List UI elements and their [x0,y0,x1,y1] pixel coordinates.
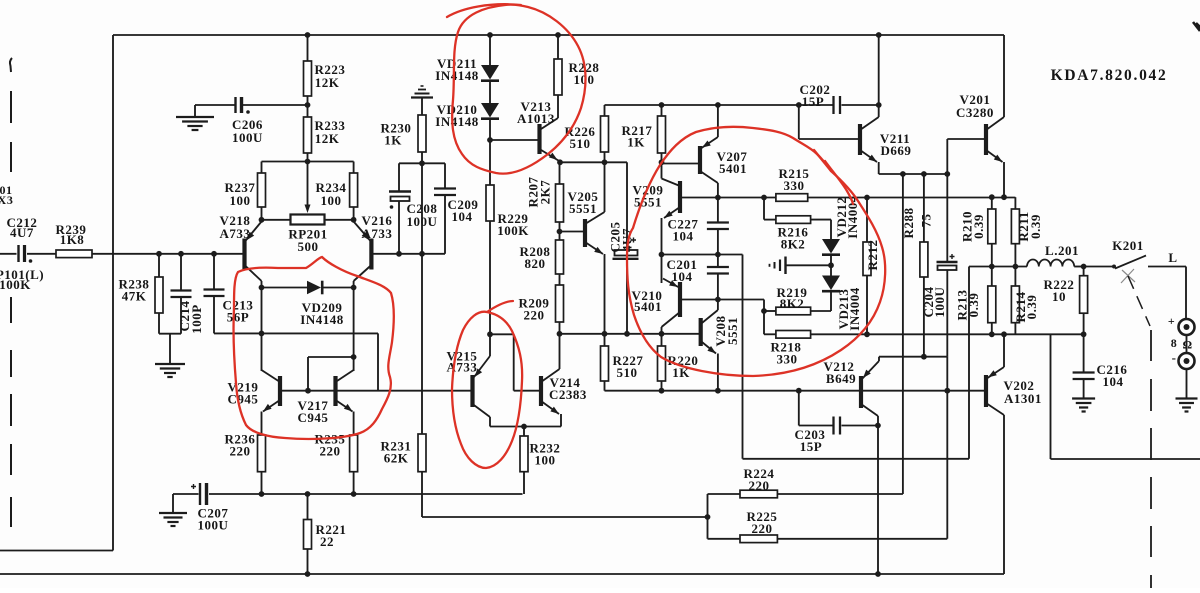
resistor R222 [1080,276,1088,314]
wire mid to chassis [786,264,832,266]
wire C214 bottom leg [180,297,182,334]
wire R235 bottom [353,472,355,494]
wire output rail B [808,197,1016,199]
transistor V211 [858,124,862,155]
wire R213 bottom leg [991,323,993,335]
wire output rail A [680,197,776,199]
wire bootstrap down [968,267,970,459]
wire V208 emitter down [717,354,719,391]
node R220 bottom [659,388,665,394]
node R226 bottom [602,159,608,165]
wire R222 top leg [1083,267,1085,276]
node R210 R213 [989,264,995,270]
svg-text:C945: C945 [228,392,259,407]
svg-text:IN4148: IN4148 [435,114,478,129]
node mid column [659,252,665,258]
node VD209 cathode [351,285,357,291]
wire R237 to diff pair [261,207,263,220]
wire emitter rail y174 [879,173,948,175]
node V202 emitter [1001,331,1007,337]
resistor R239 [56,250,92,258]
svg-text:2K7: 2K7 [538,180,553,205]
wire emitter rail left [262,219,291,221]
transistor V205 [583,219,587,247]
node diode midpoint [828,262,834,268]
wire V213 emitter drop [559,161,561,164]
transistor V213 [537,124,541,154]
svg-text:+: + [1168,314,1175,328]
node V201 emitter [1001,194,1007,200]
svg-text:0.39: 0.39 [966,293,981,318]
wire tail rail y494 b [209,493,523,495]
wire V211 base [799,138,860,140]
wire R227 top leg [604,334,606,346]
wire between jacks [1186,335,1188,353]
svg-text:L: L [1168,250,1177,265]
wire corner down to jack [1185,267,1187,319]
node R216 tap [761,195,767,201]
wire V205 emitter down [604,254,606,334]
resistor R212 [863,242,871,276]
wire R210 bottom leg [991,244,993,267]
wire C203 right run [842,425,878,427]
node y105 right end [876,102,882,108]
capacitor C214 [171,289,192,291]
resistor R221 [304,520,312,550]
resistor R232 [520,436,528,472]
red annotation circle around V215 [452,312,522,468]
resistor R236 [258,435,266,472]
resistor R234 [350,173,358,207]
wire C207 ground stub [172,494,174,513]
svg-text:0.39: 0.39 [1024,295,1039,320]
wire V207 emitter up [717,105,719,137]
resistor R223 [304,61,312,96]
svg-text:A1013: A1013 [517,111,555,126]
svg-text:100: 100 [321,193,342,208]
svg-text:100K: 100K [0,277,31,292]
wire top supply rail [113,34,1004,36]
svg-text:KDA7.820.042: KDA7.820.042 [1051,67,1168,84]
wire R237 top leg [261,162,263,174]
wire rail to VD211 [489,35,491,65]
red annotation circle around VD209 V219 V217 [234,257,394,439]
wire R210 top leg [991,197,993,209]
node R217 top [659,102,665,108]
wire V209 emitter down [661,218,663,283]
wire C201 bottom leg [717,274,719,300]
svg-text:B649: B649 [826,371,856,386]
svg-text:1K8: 1K8 [60,232,85,247]
svg-text:R288: R288 [901,208,916,239]
svg-text:8K2: 8K2 [781,237,806,252]
svg-text:220: 220 [230,444,251,459]
wire R211 bottom leg [1014,244,1016,267]
svg-text:15P: 15P [800,439,822,454]
node mirror bases [305,388,311,394]
wire jog down [377,333,379,390]
wire R229 top leg [489,140,491,185]
wire C204 to base rail [946,357,948,391]
wire rail to R228 [557,35,559,59]
wire wiper drop [307,162,309,207]
svg-text:220: 220 [320,444,341,459]
transistor V212 [859,376,863,408]
wire V214 emitter down [560,414,562,427]
resistor R210 [988,209,996,244]
wire C201 top leg [717,255,719,268]
wire R220 bottom leg [661,381,663,391]
wire R216 left bracket [763,198,765,220]
svg-text:330: 330 [777,352,798,367]
wire emitter join y426 [490,426,561,428]
transistor V209 [678,181,682,213]
node C216 top [1081,331,1087,337]
resistor R227 [601,346,609,381]
wire tail rail y494 [173,493,199,495]
node rail R228 [555,32,561,38]
wire R237 R234 top [262,161,354,163]
resistor R208 [556,240,564,274]
svg-text:220: 220 [749,478,770,493]
svg-text:A733: A733 [220,226,251,241]
wire V212 emitter corner [878,357,880,361]
svg-text:100: 100 [535,453,556,468]
capacitor C227 [707,221,729,223]
wire V211 emitter corner [878,162,880,174]
diode VD213 [822,276,840,291]
resistor R230 [418,115,426,152]
svg-text:5551: 5551 [725,317,740,345]
wire input left stub [0,253,17,255]
wire C216 top leg [1083,334,1085,372]
ground below C216 [1072,397,1095,399]
node R220 top [659,331,665,337]
wire V216 collector drop [353,281,355,288]
node C203 tap [796,388,802,394]
wire left dashed boundary [10,58,12,72]
svg-text:500: 500 [298,239,319,254]
svg-text:0.39: 0.39 [1028,214,1043,239]
wire R226 top corner [604,105,606,116]
svg-text:100U: 100U [198,518,229,533]
capacitor C202 [832,96,834,114]
wire rail drop to V211 [878,35,880,117]
wire VD209 to V219 collector [261,288,263,372]
stray pen mark top right corner [1193,22,1200,31]
capacitor C203 [832,417,834,435]
wire zobel return run [1051,458,1200,460]
wire VD212 to mid [830,256,832,266]
wire R207 to R208 [559,222,561,240]
svg-text:8: 8 [1171,336,1178,350]
wire VD213 to R219 [811,310,831,312]
wire R231 feedback run [422,516,708,518]
transistor V219 [278,376,282,406]
wire V205 collector up [604,162,606,212]
svg-text:Ω: Ω [1182,338,1192,352]
wire V210 collector down [661,327,663,334]
svg-text:1K: 1K [627,135,645,150]
wire rail to R223 [307,35,309,61]
wire x902 column [902,174,904,494]
resistor R224 [740,490,777,498]
node V208 emitter [715,388,721,394]
resistor R237 [258,173,266,207]
capacitor C213 [204,288,225,290]
node input at C213 [211,251,217,257]
svg-text:IN4148: IN4148 [300,312,343,327]
wire R230 antenna stem [421,98,423,116]
wire R231 bottom leg [421,472,423,517]
capacitor C205 electrolytic [615,250,638,256]
wire V210 col drop [742,255,744,459]
wire jog right [490,333,514,335]
svg-text:100U: 100U [232,130,263,145]
wire R220 top leg [661,334,663,346]
svg-text:104: 104 [1103,374,1124,389]
svg-text:X3: X3 [0,193,13,207]
red annotation big circle around bias network [627,127,885,376]
output jack minus terminal [1179,353,1195,369]
wire VD209 right [322,287,354,289]
node R209 V214 collector [557,331,563,337]
wire R223 to R233 [307,96,309,117]
svg-text:K201: K201 [1112,238,1144,253]
diode VD209 [307,281,321,295]
switch K201 cross mark [1121,269,1135,283]
node C227 C201 [715,252,721,258]
svg-text:62K: 62K [384,451,409,466]
wire V212 collector down [877,416,879,574]
wire R221 top leg [307,494,309,520]
node C204 bottom [944,388,950,394]
node R227 top [602,331,608,337]
capacitor C216 [1073,371,1095,373]
wire V211 base drop [798,105,800,139]
node R219 left [761,308,767,314]
wire R233 to wiper node [307,153,309,162]
wire C205 bottom leg [626,260,628,334]
resistor R216 [776,216,811,224]
wire C227 top leg [717,198,719,223]
wire R213 top leg [991,267,993,287]
wire node to K201 [1084,266,1113,268]
node input at R238 [156,251,162,257]
diode VD211 [481,65,499,80]
node V201 base drop [944,171,950,177]
wire bottom ground rail [0,573,1004,575]
svg-text:100: 100 [574,72,595,87]
wire R227 bottom leg [604,381,606,391]
capacitor C212 [17,245,19,262]
resistor R213 [988,286,996,323]
wire R234 to diff pair [353,207,355,220]
svg-text:A1301: A1301 [1004,391,1042,406]
wire R222 bottom leg [1083,313,1085,334]
wire R230 bottom leg [421,152,423,163]
node V207 emitter rail [715,102,721,108]
wire V202 collector down [1003,415,1005,574]
node base rail tap [419,251,425,257]
svg-text:510: 510 [570,136,591,151]
svg-text:5401: 5401 [719,161,747,176]
wire VD210 to node [489,119,491,140]
node C202 left [796,102,802,108]
wire V207 base wire [662,163,701,165]
wire R288 bottom leg [923,277,925,357]
wire C209 bottom leg [444,195,446,254]
svg-text:10: 10 [1052,289,1066,304]
wire R238 C214 join [159,333,181,335]
resistor R233 [304,117,312,153]
wire V217 emitter leg [353,412,355,436]
wire V201 collector up [1003,35,1005,117]
node input at C214 [178,251,184,257]
svg-text:104: 104 [452,209,473,224]
svg-text:R212: R212 [865,240,880,271]
svg-text:104: 104 [672,269,693,284]
wire C213 to jog [214,332,378,334]
svg-text:4U7: 4U7 [10,225,34,240]
wire C204 top leg [946,174,948,262]
svg-text:510: 510 [617,365,638,380]
node V208 collector [715,297,721,303]
wire VD209 to V217 collector [353,288,355,372]
wire R211 top leg [1014,197,1016,209]
node x902 top [900,171,906,177]
node R221 top [305,491,311,497]
wiper arrow into RP201 [305,205,311,214]
wire K201 linkage dashed [1128,276,1150,326]
wire V215 collector down [489,417,491,427]
wire C214 top leg [180,254,182,290]
svg-text:100U: 100U [932,286,947,317]
wire V205 base [560,231,586,233]
wire R238 top leg [158,254,160,277]
wire R239 to V218 base [92,253,245,255]
wire V215 emitter up [489,334,491,356]
wire VD213 cathode leg [830,292,832,311]
transistor V207 [698,146,702,174]
node feedback bracket [705,514,711,520]
wire R216 to VD212 [811,219,831,221]
wire C206 to R223 node [243,104,308,106]
wire V201 emitter down [1003,162,1005,197]
wire emitter node to C205 [560,161,627,163]
wire V210 base rail [680,299,764,301]
node R212 bottom [864,331,870,337]
wire C213 bottom leg [213,296,215,333]
capacitor C204 electrolytic [937,261,958,263]
transistor V217 [333,376,337,406]
wire R224 connector [708,493,741,495]
node R232 top [521,424,527,430]
wire mirror base rail [280,390,473,392]
resistor R238 [155,277,163,313]
red annotation tail on V215 circle [487,301,513,312]
red annotation circle around VD211 VD210 V213 [452,5,585,174]
transistor V215 [470,375,474,407]
node R222 top [1081,264,1087,270]
svg-text:56P: 56P [227,310,249,325]
diode VD212 [822,239,840,254]
wire jack to ground [1186,369,1188,399]
svg-text:-: - [1172,350,1177,365]
node V212 collector join [875,423,881,429]
wire R207 top leg [559,162,561,184]
transistor V216 [369,239,373,270]
node C208 leg tap [396,251,402,257]
wire R226 bottom leg [604,152,606,162]
capacitor C206 [234,97,236,113]
wire K201 to corner [1148,266,1186,268]
wire R230 down to base rail [421,163,423,434]
wire R209 bottom [559,322,561,334]
svg-text:330: 330 [784,178,805,193]
wire x947 down to R225 [946,391,948,539]
wire R234 top leg [353,162,355,174]
node rail R221 [305,571,311,577]
wire R219 connector [764,310,776,312]
svg-text:A733: A733 [362,226,393,241]
wire VD211 to VD210 [489,81,491,103]
node emitter right [351,217,357,223]
chassis ground symbol [784,257,786,275]
node top rail R223 [305,32,311,38]
wire C213 top leg [213,254,215,290]
transistor V214 [539,376,543,406]
wire lower rail y334 [811,333,1084,335]
wire C203 left run [799,425,834,427]
capacitor C209 [434,187,456,189]
wire bootstrap bottom [743,458,970,460]
ground below C207 [159,512,187,514]
svg-text:820: 820 [525,256,546,271]
svg-text:C3280: C3280 [956,105,994,120]
wire R228 to V213 collector [557,95,559,118]
svg-text:IN4148: IN4148 [435,68,478,83]
wire R212 bottom leg [866,276,868,335]
wire C216 bottom leg [1083,379,1085,399]
transistor V218 [242,239,246,270]
node V215 emitter [487,331,493,337]
resistor R207 [556,184,564,222]
output jack plus terminal [1179,319,1195,335]
capacitor C201 [707,266,729,268]
node R210 top [989,194,995,200]
resistor R215 [776,194,808,202]
wire V207 collector down [717,183,719,198]
node R230 bottom [419,160,425,166]
wire right dashed boundary [1150,330,1152,361]
wire C208 bottom leg [398,201,400,254]
wire driver base rail [605,390,987,392]
svg-text:100K: 100K [497,223,529,238]
node C205 bottom [624,331,630,337]
capacitor C207 electrolytic [199,483,201,505]
wire R238 bottom leg [158,313,160,334]
wire join to ground [169,334,171,364]
svg-text:D669: D669 [881,143,912,158]
ground below jack [1176,397,1198,399]
wire V216 base right [371,253,445,255]
resistor R218 [776,331,811,339]
node R217 bottom [659,159,665,165]
resistor R235 [350,435,358,472]
svg-text:104: 104 [673,229,694,244]
capacitor C208 electrolytic [389,190,411,192]
